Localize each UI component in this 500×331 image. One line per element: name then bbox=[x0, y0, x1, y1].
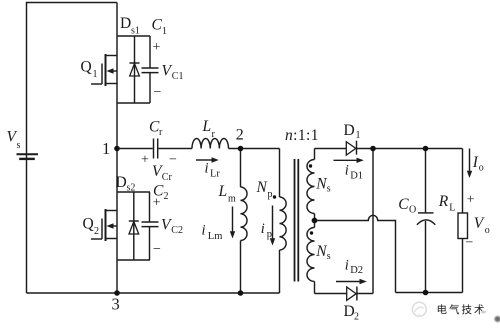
svg-text:i: i bbox=[261, 221, 265, 237]
svg-text:s2: s2 bbox=[127, 183, 136, 194]
svg-text:1: 1 bbox=[162, 26, 167, 37]
svg-text:电气技术: 电气技术 bbox=[437, 303, 487, 316]
svg-text:1: 1 bbox=[102, 139, 110, 158]
svg-text:s1: s1 bbox=[131, 26, 140, 37]
svg-text:Q: Q bbox=[83, 216, 94, 233]
svg-text:+: + bbox=[141, 152, 149, 167]
svg-text:2: 2 bbox=[236, 127, 244, 144]
svg-text:−: − bbox=[153, 242, 161, 257]
svg-text:+: + bbox=[153, 40, 161, 55]
svg-text:o: o bbox=[479, 163, 484, 174]
svg-text:−: − bbox=[466, 235, 474, 250]
svg-text:3: 3 bbox=[112, 294, 120, 313]
svg-text:+: + bbox=[467, 192, 475, 207]
svg-text:i: i bbox=[205, 160, 209, 176]
svg-text:D: D bbox=[344, 122, 355, 139]
svg-text:s: s bbox=[327, 183, 331, 194]
svg-text:C1: C1 bbox=[172, 71, 184, 82]
svg-text:m: m bbox=[228, 194, 236, 205]
svg-text:Lr: Lr bbox=[210, 168, 220, 179]
svg-text:I: I bbox=[472, 154, 479, 171]
svg-text:D: D bbox=[120, 15, 131, 32]
svg-text:D2: D2 bbox=[350, 265, 363, 276]
svg-text:o: o bbox=[485, 225, 490, 236]
svg-text:R: R bbox=[438, 193, 449, 210]
svg-text:L: L bbox=[449, 203, 455, 214]
svg-text:C: C bbox=[152, 17, 163, 34]
svg-text:1: 1 bbox=[93, 69, 98, 80]
svg-text:n:1:1: n:1:1 bbox=[285, 127, 319, 144]
svg-text:1: 1 bbox=[356, 130, 361, 141]
svg-text:Lm: Lm bbox=[208, 231, 223, 242]
svg-text:2: 2 bbox=[354, 311, 359, 322]
svg-text:C2: C2 bbox=[171, 225, 183, 236]
svg-text:p: p bbox=[267, 229, 272, 240]
svg-text:V: V bbox=[474, 215, 485, 232]
svg-text:O: O bbox=[409, 204, 416, 215]
svg-text:−: − bbox=[154, 85, 162, 100]
svg-text:D1: D1 bbox=[350, 170, 363, 181]
svg-text:Q: Q bbox=[81, 59, 92, 76]
svg-text:p: p bbox=[268, 189, 273, 200]
svg-text:C: C bbox=[398, 196, 409, 213]
svg-text:2: 2 bbox=[164, 191, 169, 202]
svg-text:2: 2 bbox=[94, 226, 99, 237]
svg-text:i: i bbox=[345, 163, 349, 179]
svg-text:−: − bbox=[169, 152, 177, 167]
svg-text:i: i bbox=[345, 257, 349, 273]
svg-text:L: L bbox=[218, 183, 228, 200]
svg-text:D: D bbox=[116, 174, 127, 191]
svg-text:+: + bbox=[153, 196, 161, 211]
svg-text:L: L bbox=[202, 118, 212, 135]
svg-text:Cr: Cr bbox=[162, 172, 173, 183]
svg-text:s: s bbox=[17, 140, 21, 151]
svg-text:s: s bbox=[327, 251, 331, 262]
svg-text:i: i bbox=[202, 223, 206, 239]
